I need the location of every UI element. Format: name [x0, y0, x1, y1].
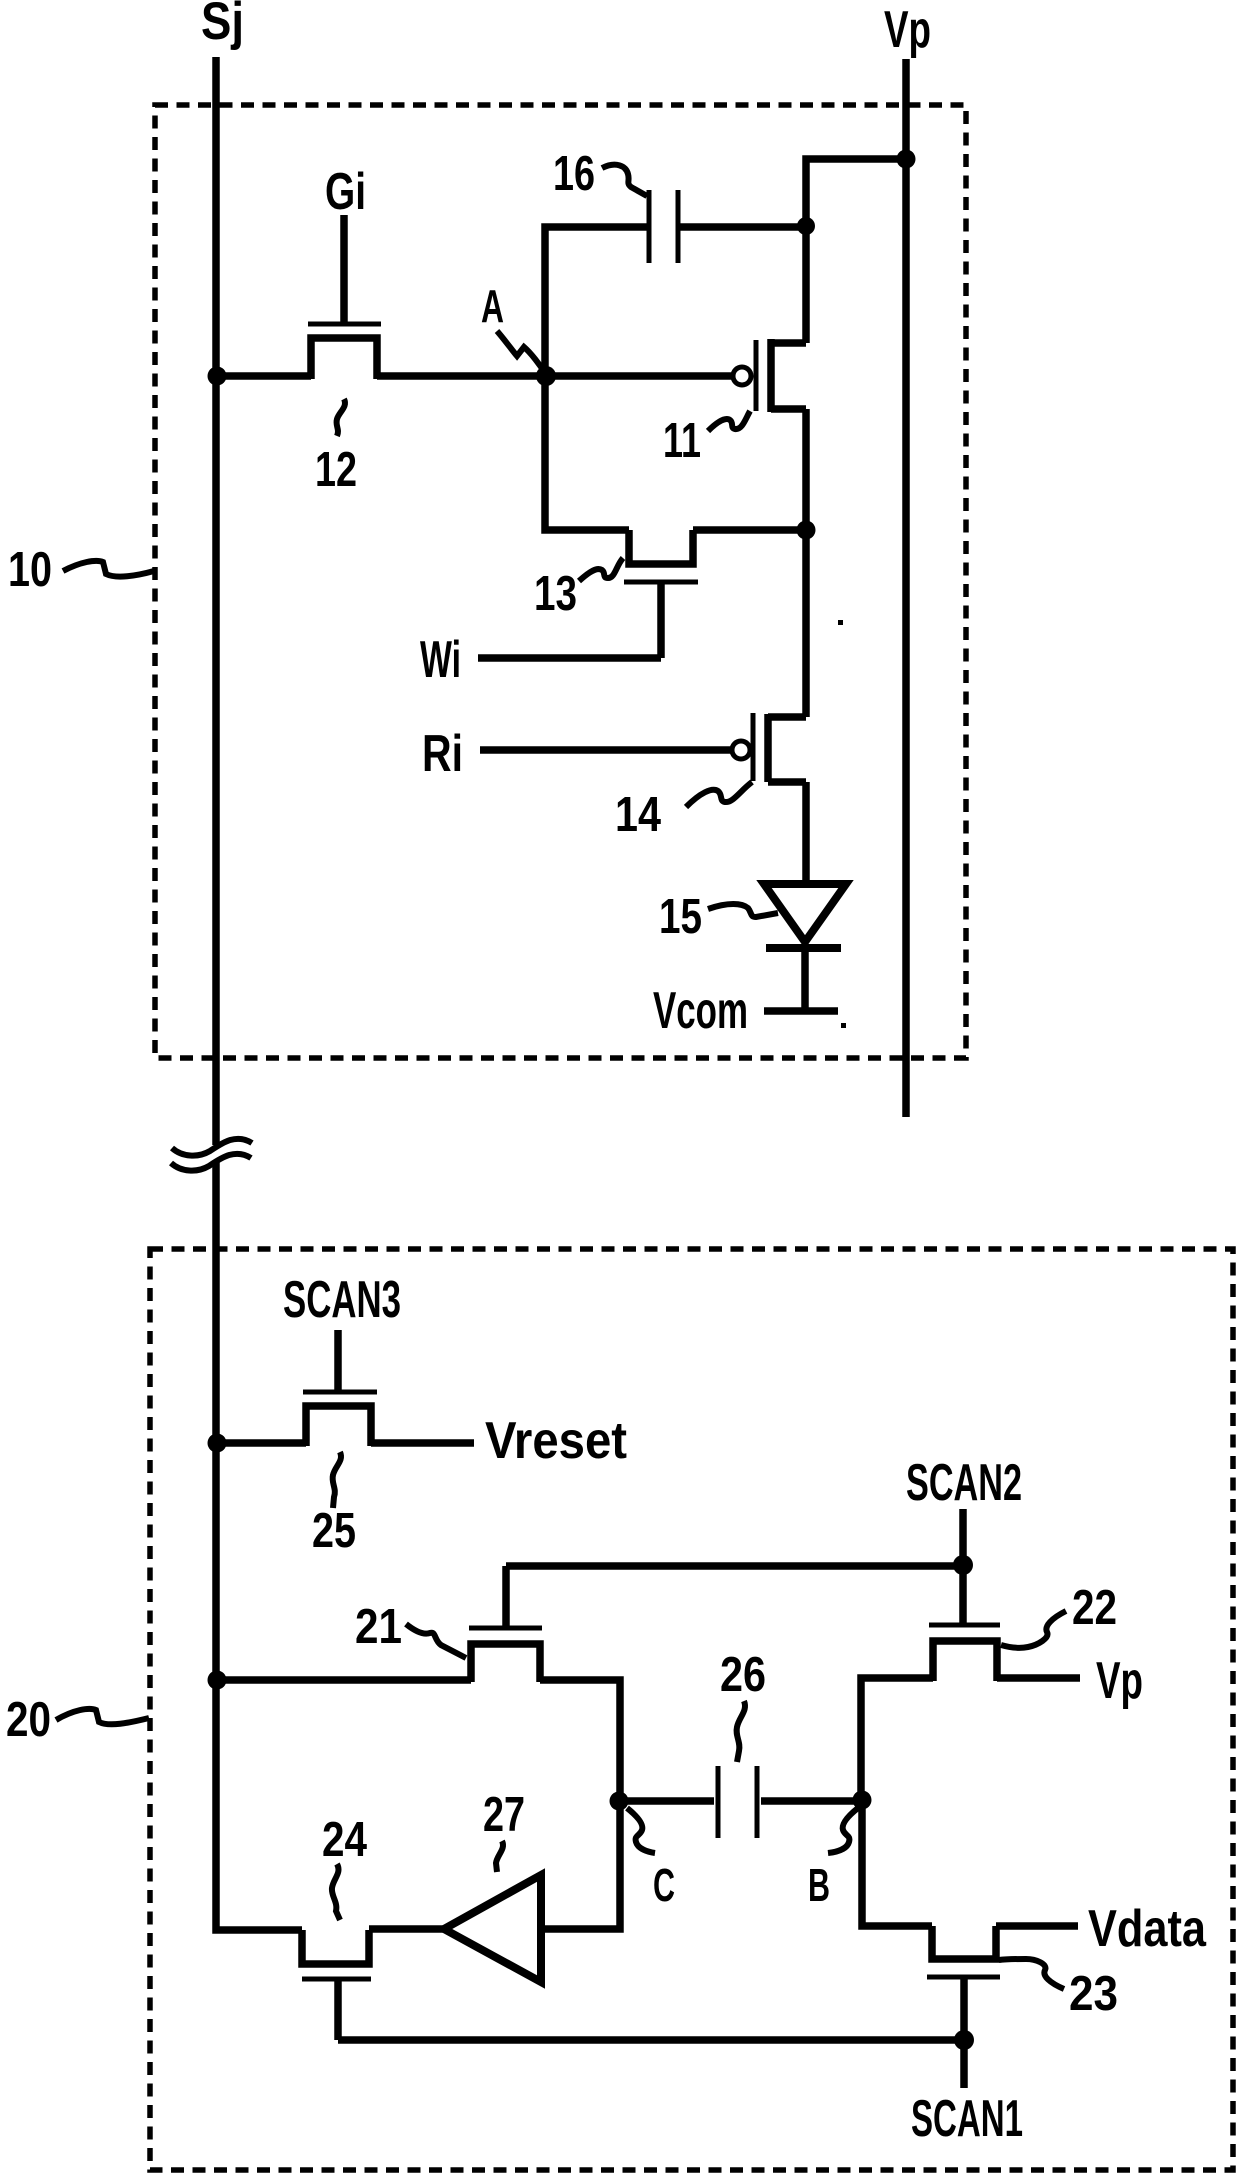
- wire 21 to node C: [540, 1680, 620, 1801]
- transistor 13 gate lead: [657, 582, 665, 658]
- svg-text:16: 16: [553, 147, 595, 201]
- leader for 22: [1001, 1611, 1066, 1648]
- junction Sj-25: [208, 1434, 227, 1453]
- svg-text:20: 20: [6, 1693, 51, 1747]
- svg-text:12: 12: [315, 443, 357, 497]
- svg-text:23: 23: [1069, 1967, 1118, 2021]
- wire Sj vertical (lower): [212, 1162, 220, 1680]
- wire 11 drain to node 13: [802, 409, 810, 530]
- svg-text:SCAN2: SCAN2: [906, 1454, 1022, 1512]
- svg-text:Vp: Vp: [884, 1, 931, 59]
- break symbol upper wave: [172, 1139, 252, 1156]
- transistor 11 gate circle: [733, 367, 751, 385]
- wire Sj vertical (upper): [212, 57, 220, 1145]
- leader for C: [627, 1808, 655, 1853]
- wire SCAN2 lead: [959, 1509, 967, 1625]
- transistor 22 gate bar: [929, 1623, 1000, 1628]
- transistor 11 source lead: [771, 339, 806, 347]
- leader for 24: [332, 1864, 340, 1920]
- wire 24 to inverter 27: [369, 1925, 444, 1933]
- break symbol lower wave: [171, 1154, 251, 1171]
- diode 15 triangle: [764, 884, 846, 942]
- Vcom terminal bar: [764, 1007, 838, 1015]
- leader for 21: [406, 1624, 466, 1658]
- leader for 13: [579, 558, 623, 581]
- leader for B: [828, 1808, 858, 1853]
- svg-text:22: 22: [1072, 1581, 1117, 1635]
- junction Sj-21: [208, 1671, 227, 1690]
- svg-text:14: 14: [615, 788, 661, 842]
- leader for 25: [333, 1452, 341, 1508]
- svg-text:13: 13: [534, 567, 577, 621]
- svg-text:27: 27: [483, 1788, 525, 1842]
- wire node A up to cap 16: [545, 227, 649, 376]
- dashed box 20: [150, 1249, 1233, 2170]
- wire SCAN1 horizontal: [338, 2036, 964, 2044]
- wire 14 to diode 15: [802, 782, 810, 886]
- transistor 21 gate bar: [469, 1626, 542, 1631]
- node B dot: [853, 1791, 872, 1810]
- leader for 11: [708, 411, 750, 431]
- svg-text:Sj: Sj: [201, 0, 244, 51]
- transistor 13 channel hat: [629, 530, 693, 564]
- wire Sj branch to 21: [216, 1676, 471, 1684]
- leader for A: [497, 331, 545, 373]
- transistor 14 channel: [764, 714, 772, 782]
- wire 22 right lead to Vp: [997, 1674, 1080, 1682]
- svg-text:Gi: Gi: [325, 163, 366, 221]
- leader for 23: [999, 1959, 1064, 1989]
- junction Sj-12: [208, 367, 227, 386]
- leader for 16: [602, 165, 647, 196]
- wire node A down to 13: [545, 376, 629, 530]
- wire Gi gate lead: [340, 215, 348, 322]
- speck: [841, 1023, 846, 1028]
- svg-text:25: 25: [312, 1504, 356, 1558]
- svg-text:SCAN3: SCAN3: [283, 1271, 401, 1329]
- transistor 14 gate circle: [732, 741, 750, 759]
- capacitor C26 right plate: [755, 1766, 760, 1838]
- wire diode to Vcom: [801, 948, 809, 1011]
- transistor 25 gate bar: [303, 1390, 377, 1395]
- junction SCAN2: [953, 1555, 973, 1575]
- transistor 12 gate bar: [308, 322, 381, 327]
- transistor 14 source lead: [768, 713, 806, 721]
- wire node C to cap 26: [619, 1797, 714, 1805]
- svg-text:24: 24: [322, 1813, 367, 1867]
- transistor 23 gate lead: [960, 1977, 968, 2040]
- inverter 27 triangle: [444, 1875, 541, 1982]
- node C dot: [610, 1792, 629, 1811]
- leader for 10: [63, 561, 154, 577]
- transistor 25 channel hat: [306, 1406, 371, 1446]
- leader for 27: [496, 1841, 503, 1872]
- junction on Vp line: [897, 150, 916, 169]
- transistor 24 gate bar: [302, 1977, 371, 1982]
- transistor 23 channel hat: [932, 1926, 996, 1959]
- transistor 14 gate bar: [751, 713, 756, 781]
- svg-text:Vp: Vp: [1096, 1652, 1143, 1710]
- wire node B down to 23: [862, 1800, 932, 1926]
- wire cap 26 to node B: [761, 1797, 862, 1805]
- wire 23 to Vdata: [996, 1922, 1078, 1930]
- wire 22 left lead to node B: [861, 1678, 933, 1800]
- wire SCAN2 horizontal: [506, 1562, 963, 1570]
- transistor 22 channel hat: [933, 1641, 997, 1681]
- capacitor C16 right plate: [676, 190, 681, 263]
- node A dot: [536, 366, 556, 386]
- wire Sj to transistor 12: [216, 372, 311, 380]
- svg-text:SCAN1: SCAN1: [911, 2090, 1023, 2148]
- transistor 24 gate lead: [334, 1979, 342, 2040]
- capacitor C16 left plate: [647, 190, 652, 263]
- wire Sj branch down to 24: [216, 1680, 302, 1930]
- wire cap 16 right to Vp branch: [678, 223, 806, 231]
- junction 11-13: [797, 521, 816, 540]
- svg-text:C: C: [653, 1859, 675, 1911]
- speck: [838, 620, 843, 625]
- wire Vp vertical: [902, 59, 910, 1117]
- svg-text:Wi: Wi: [420, 631, 461, 689]
- transistor 21 gate lead: [502, 1566, 510, 1628]
- svg-text:A: A: [481, 280, 504, 332]
- leader for 12: [337, 399, 346, 436]
- wire transistor 12 to node A to gate of 11: [377, 372, 734, 380]
- wire Ri: [480, 746, 732, 754]
- svg-text:Vcom: Vcom: [653, 982, 748, 1040]
- leader for 15: [708, 904, 778, 917]
- svg-text:15: 15: [659, 890, 702, 944]
- svg-text:11: 11: [663, 414, 701, 468]
- svg-text:Ri: Ri: [422, 725, 463, 783]
- capacitor C26 left plate: [716, 1766, 721, 1838]
- transistor 12 channel hat: [311, 338, 377, 379]
- diode 15 cathode bar: [766, 944, 841, 952]
- leader for 26: [737, 1701, 745, 1762]
- wire Vp branch to 14: [802, 530, 810, 717]
- transistor 24 channel hat: [302, 1930, 369, 1964]
- transistor 21 channel hat: [471, 1644, 540, 1682]
- wire transistor 25 to Vreset: [371, 1439, 474, 1447]
- junction cap16-Vp branch: [797, 217, 815, 235]
- transistor 14 drain lead: [768, 778, 806, 786]
- dashed box 10: [155, 105, 966, 1058]
- wire 13 to Vp branch: [693, 526, 806, 534]
- svg-text:21: 21: [355, 1600, 402, 1654]
- wire Vp branch vertical upper: [806, 159, 906, 343]
- wire SCAN1 lead: [960, 2040, 968, 2088]
- wire inverter input from node C: [541, 1801, 620, 1929]
- transistor 11 gate bar: [754, 340, 759, 411]
- transistor 23 gate bar: [927, 1975, 1000, 1980]
- wire Sj to transistor 25: [216, 1439, 306, 1447]
- svg-text:10: 10: [8, 543, 52, 597]
- svg-text:26: 26: [720, 1648, 766, 1702]
- transistor 11 channel: [767, 339, 775, 412]
- leader for 14: [686, 782, 752, 807]
- svg-text:Vreset: Vreset: [485, 1412, 627, 1470]
- wire Wi: [478, 654, 661, 662]
- transistor 11 drain lead: [771, 405, 806, 413]
- transistor 13 gate bar: [624, 580, 698, 585]
- svg-text:B: B: [808, 1859, 830, 1911]
- svg-text:Vdata: Vdata: [1088, 1900, 1207, 1958]
- leader for 20: [56, 1709, 149, 1724]
- transistor 25 gate lead: [334, 1330, 342, 1392]
- junction SCAN1: [954, 2030, 974, 2050]
